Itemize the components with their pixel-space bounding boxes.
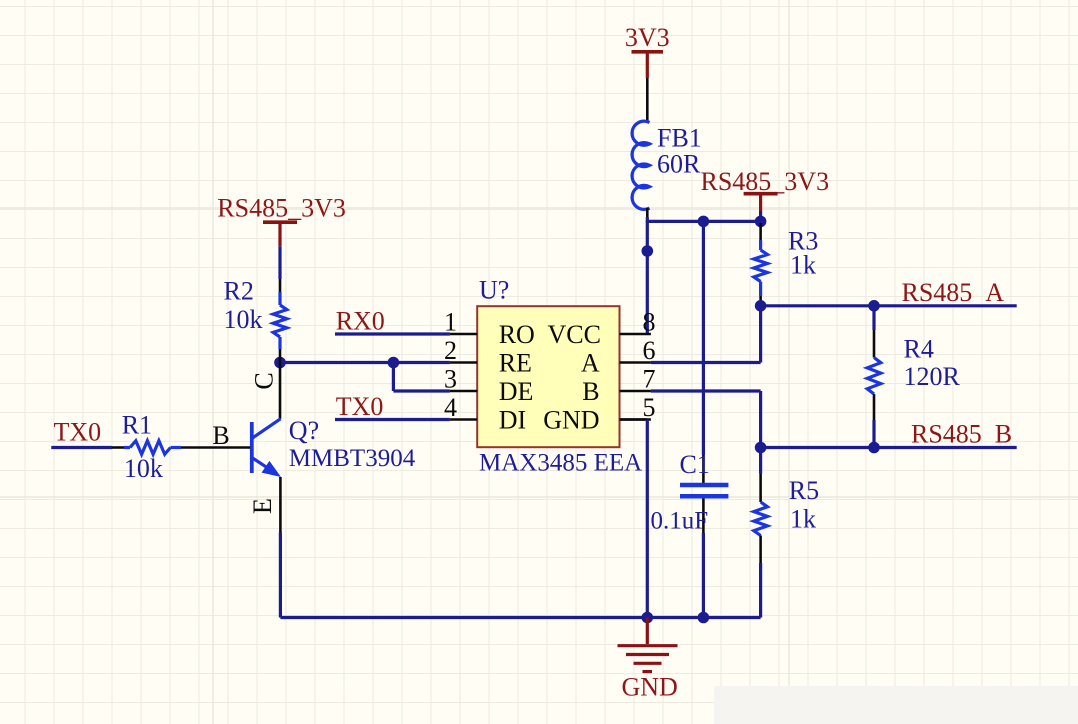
svg-text:C: C — [250, 372, 279, 389]
ground symbol — [646, 618, 649, 645]
resistor R1 — [112, 446, 124, 449]
transistor Q1 collector diagonal — [252, 419, 281, 439]
svg-text:RS485 B: RS485 B — [911, 420, 1012, 449]
wire emitter to ground bus — [279, 533, 282, 618]
junction dot C1 bottom — [698, 612, 710, 624]
svg-text:1: 1 — [444, 308, 457, 337]
svg-text:R5: R5 — [789, 476, 819, 505]
svg-text:2: 2 — [444, 336, 457, 365]
svg-text:DI: DI — [499, 406, 526, 435]
svg-text:E: E — [248, 498, 277, 514]
power RS485_3V3 bar left — [263, 220, 297, 224]
wire pin5 to ground bus — [620, 418, 648, 421]
watermark patch bottom right — [714, 686, 1078, 724]
pin 2 stub — [450, 361, 477, 364]
svg-text:TX0: TX0 — [54, 418, 102, 447]
svg-text:TX0: TX0 — [336, 392, 384, 421]
svg-text:FB1: FB1 — [657, 124, 702, 153]
svg-text:MAX3485 EEA: MAX3485 EEA — [479, 450, 642, 477]
op-amp U1 MAX3485 body — [477, 306, 619, 447]
svg-text:R2: R2 — [224, 277, 254, 306]
svg-text:60R: 60R — [657, 150, 701, 179]
svg-text:RS485_3V3: RS485_3V3 — [701, 167, 830, 196]
svg-text:DE: DE — [499, 377, 534, 406]
pin 5 stub — [620, 418, 651, 421]
resistor R5 — [759, 448, 762, 474]
resistor R4 — [872, 306, 875, 330]
junction dot RE/DE branch — [388, 357, 400, 369]
wire RX0 to pin1 — [335, 332, 450, 335]
svg-text:MMBT3904: MMBT3904 — [289, 445, 416, 472]
svg-text:RS485_3V3: RS485_3V3 — [217, 194, 346, 223]
wire ground bus — [280, 616, 760, 619]
svg-text:B: B — [212, 421, 229, 450]
pin 7 stub — [620, 390, 651, 393]
pin 1 stub — [450, 333, 477, 336]
junction dot R2 bottom — [274, 357, 286, 369]
svg-text:120R: 120R — [904, 362, 961, 391]
pin 3 stub — [450, 390, 477, 393]
power RS485_3V3 stub right — [759, 194, 762, 211]
wire top bus RS485_3V3 net — [647, 220, 760, 223]
power 3V3 bar — [632, 50, 664, 54]
svg-text:1k: 1k — [790, 505, 816, 534]
junction dot R5 top / RS485_B — [755, 442, 767, 454]
pin 8 stub — [620, 333, 651, 336]
svg-text:R1: R1 — [122, 411, 152, 440]
svg-text:1k: 1k — [790, 251, 816, 280]
svg-text:5: 5 — [643, 393, 656, 422]
svg-text:R4: R4 — [904, 335, 934, 364]
svg-text:0.1uF: 0.1uF — [651, 508, 709, 535]
svg-text:3V3: 3V3 — [625, 23, 670, 52]
svg-text:8: 8 — [643, 308, 656, 337]
transistor Q1 emitter diagonal with arrow — [252, 458, 268, 469]
svg-text:B: B — [582, 377, 599, 406]
transistor Q1 base pin — [181, 446, 250, 449]
junction dot R4 bottom — [868, 442, 880, 454]
wire RE net — [280, 361, 450, 364]
svg-text:RS485 A: RS485 A — [902, 278, 1005, 307]
inductor FB1 coil — [632, 121, 649, 209]
wire RS485_B — [761, 446, 1017, 449]
resistor R3 — [759, 223, 762, 240]
svg-text:10k: 10k — [124, 454, 163, 483]
pin 6 stub — [620, 361, 651, 364]
svg-text:GND: GND — [622, 673, 678, 702]
transistor Q1 collector pin — [279, 363, 282, 419]
svg-text:7: 7 — [643, 365, 656, 394]
wire 3V3 to FB1 — [646, 78, 649, 123]
wire pin7 B to RS485_B — [651, 389, 761, 392]
svg-text:Q?: Q? — [289, 416, 319, 445]
resistor R2 — [278, 246, 281, 279]
svg-text:RO: RO — [499, 320, 535, 349]
wire RS485_A — [761, 304, 1017, 307]
transistor Q1 base bar — [250, 422, 254, 473]
wire FB1 bottom pin — [646, 208, 649, 217]
transistor Q1 emitter pin — [279, 477, 282, 533]
svg-text:RX0: RX0 — [336, 307, 385, 336]
svg-text:GND: GND — [543, 406, 599, 435]
wire TX0 to pin4 — [335, 418, 450, 421]
svg-text:4: 4 — [444, 393, 457, 422]
junction dot R3/RS485_A — [755, 300, 767, 312]
wire VCC branch vertical — [646, 221, 649, 334]
wire TX0 — [51, 446, 112, 449]
junction dot top bus C1 — [698, 216, 710, 228]
power 3V3 stub — [646, 52, 649, 78]
junction dot FB1/VCC — [642, 245, 654, 257]
junction dot R4 top — [868, 300, 880, 312]
svg-text:C1: C1 — [680, 450, 710, 479]
wire DE branch — [392, 363, 395, 392]
wire pin6 A to RS485_A — [651, 361, 761, 364]
svg-text:A: A — [581, 349, 600, 378]
svg-text:VCC: VCC — [548, 320, 601, 349]
power RS485_3V3 stub left — [278, 222, 281, 246]
svg-text:6: 6 — [643, 336, 656, 365]
pin 4 stub — [450, 418, 477, 421]
junction dot GND — [642, 612, 654, 624]
junction dot top bus RS485_3V3 — [755, 216, 767, 228]
svg-text:RE: RE — [499, 349, 532, 378]
power RS485_3V3 bar right — [744, 192, 778, 196]
svg-text:U?: U? — [479, 276, 509, 305]
capacitor C1 — [702, 221, 705, 455]
svg-text:10k: 10k — [224, 305, 263, 334]
svg-text:3: 3 — [444, 365, 457, 394]
